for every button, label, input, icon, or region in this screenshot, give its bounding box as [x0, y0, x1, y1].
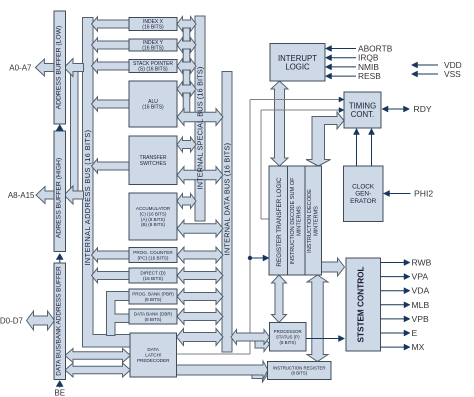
- svg-text:BE: BE: [54, 389, 65, 397]
- svg-text:MINTERMS: MINTERMS: [314, 206, 320, 236]
- svg-text:(B) (8 BITS): (B) (8 BITS): [141, 222, 166, 227]
- svg-text:PROG. COUNTER: PROG. COUNTER: [133, 250, 173, 255]
- svg-text:PROCESSOR: PROCESSOR: [274, 329, 302, 334]
- svg-text:DATA BANK (DBR): DATA BANK (DBR): [134, 311, 173, 316]
- svg-text:CONT.: CONT.: [351, 110, 374, 119]
- svg-text:INTERNAL SPECIAL BUS (16 BITS): INTERNAL SPECIAL BUS (16 BITS): [196, 67, 205, 190]
- svg-text:(A) (8 BITS): (A) (8 BITS): [141, 217, 166, 222]
- svg-text:A0-A7: A0-A7: [9, 64, 32, 73]
- svg-text:(16 BITS): (16 BITS): [142, 105, 164, 111]
- svg-text:(8 BITS): (8 BITS): [291, 371, 308, 376]
- svg-text:TIMING: TIMING: [349, 101, 376, 110]
- svg-text:(PC) (16 BITS): (PC) (16 BITS): [138, 255, 169, 260]
- svg-text:MINTERMS: MINTERMS: [297, 206, 303, 236]
- svg-text:VPA: VPA: [412, 272, 429, 282]
- svg-text:(16 BITS): (16 BITS): [142, 46, 164, 52]
- svg-text:LATCH/: LATCH/: [145, 353, 162, 358]
- svg-text:(S) (16 BITS): (S) (16 BITS): [138, 67, 168, 73]
- svg-text:MX: MX: [412, 342, 425, 352]
- svg-text:RDY: RDY: [414, 104, 432, 114]
- svg-text:RWB: RWB: [412, 258, 432, 268]
- svg-text:PROG. BANK (PBR): PROG. BANK (PBR): [132, 291, 174, 296]
- svg-text:(16 BITS): (16 BITS): [143, 276, 163, 281]
- svg-text:PREDECODER: PREDECODER: [137, 358, 170, 363]
- svg-text:STSTEM CONTROL: STSTEM CONTROL: [357, 267, 366, 343]
- svg-text:A8-A15: A8-A15: [8, 191, 35, 200]
- svg-text:VSS: VSS: [444, 69, 461, 79]
- svg-text:E: E: [412, 328, 418, 338]
- svg-text:ADRESS BUFFER (HIGH): ADRESS BUFFER (HIGH): [55, 158, 62, 238]
- svg-text:DATA BUS/BANK ADDRESS BUFFER: DATA BUS/BANK ADDRESS BUFFER: [55, 266, 62, 376]
- svg-text:ERATOR: ERATOR: [350, 198, 376, 205]
- svg-text:VDA: VDA: [412, 286, 430, 296]
- svg-text:MLB: MLB: [412, 300, 430, 310]
- svg-text:INSTRUCTION DECODE SUM OF: INSTRUCTION DECODE SUM OF: [290, 177, 296, 265]
- svg-text:DIRECT (D): DIRECT (D): [140, 270, 166, 275]
- svg-text:CLOCK: CLOCK: [352, 183, 375, 190]
- svg-text:RESB: RESB: [358, 71, 381, 81]
- svg-text:INSTRUCTION DECODE: INSTRUCTION DECODE: [307, 189, 313, 253]
- svg-text:(C) (16 BITS): (C) (16 BITS): [140, 211, 167, 216]
- svg-text:DATA: DATA: [147, 347, 160, 352]
- svg-text:(8 BITS): (8 BITS): [145, 297, 162, 302]
- svg-text:REGISTER TRANSFER LOGIC: REGISTER TRANSFER LOGIC: [276, 177, 283, 267]
- svg-text:(8 BITS): (8 BITS): [145, 317, 162, 322]
- svg-text:INTERUPT: INTERUPT: [278, 54, 317, 63]
- svg-text:INTERNAL ADDRESS BUS (16 BITS): INTERNAL ADDRESS BUS (16 BITS): [83, 129, 92, 265]
- svg-text:PHI2: PHI2: [414, 189, 433, 199]
- svg-text:LOGIC: LOGIC: [285, 63, 310, 72]
- svg-text:SWITCHES: SWITCHES: [140, 161, 167, 167]
- svg-text:ACCUMULATOR: ACCUMULATOR: [136, 206, 171, 211]
- svg-text:D0-D7: D0-D7: [0, 317, 24, 326]
- svg-text:STATUS (P): STATUS (P): [276, 335, 300, 340]
- svg-text:(8 BITS): (8 BITS): [280, 340, 297, 345]
- svg-text:VPB: VPB: [412, 314, 429, 324]
- svg-text:INTERNAL DATA BUS (16 BITS): INTERNAL DATA BUS (16 BITS): [223, 143, 232, 256]
- svg-text:(16 BITS): (16 BITS): [142, 25, 164, 31]
- svg-text:ADDRESS BUFFER (LOW): ADDRESS BUFFER (LOW): [55, 26, 62, 110]
- svg-text:GEN-: GEN-: [355, 191, 371, 198]
